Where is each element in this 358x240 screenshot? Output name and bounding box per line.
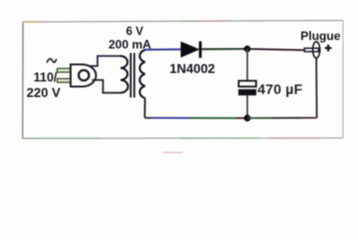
transformer T1 primary winding <box>121 56 128 93</box>
svg-text:470 µF: 470 µF <box>258 81 303 97</box>
svg-text:6 V: 6 V <box>126 26 144 38</box>
diode D1 1N4002 <box>181 41 202 58</box>
label ~ 110/220 V (mains voltage) <box>27 59 61 100</box>
label 470 uF <box>258 81 303 97</box>
label 6 V (secondary voltage) <box>126 26 144 38</box>
wire capacitor C1 to node B <box>246 95 248 118</box>
svg-text:220 V: 220 V <box>27 85 61 100</box>
scan artifact (faint pink mark, decorative) <box>163 152 183 154</box>
wire node A down to capacitor C1 <box>246 49 248 81</box>
node B (negative rail junction) <box>244 115 251 122</box>
frame (scan border, decorative) <box>23 20 343 138</box>
wire node A to output plug tip <box>247 49 304 50</box>
label Plugue <box>301 29 341 43</box>
svg-text:Plugue: Plugue <box>301 29 341 43</box>
wire secondary bottom lead <box>144 98 146 118</box>
wire plug lower lead to primary bottom <box>92 80 121 93</box>
transformer T1 core <box>131 53 135 98</box>
node A (positive rail junction) <box>244 46 251 53</box>
capacitor C1 (electrolytic, 470 uF) <box>238 81 256 96</box>
svg-text:110/: 110/ <box>34 70 58 84</box>
label 200 mA (secondary current) <box>109 37 152 51</box>
plug P1 (AC mains plug) <box>57 64 96 86</box>
transformer T1 secondary winding <box>140 50 145 98</box>
label + polarity <box>325 45 332 52</box>
label 1N4002 <box>170 61 216 76</box>
svg-text:1N4002: 1N4002 <box>170 61 216 76</box>
wire bottom rail secondary to node B <box>145 117 247 119</box>
wire plug upper lead to primary top <box>90 56 121 66</box>
wire secondary top to diode anode <box>145 48 181 50</box>
wire diode cathode to node A <box>202 48 248 50</box>
connector J1 output plug (Plugue) <box>305 42 320 58</box>
wire node B to output plug sleeve <box>247 58 316 118</box>
